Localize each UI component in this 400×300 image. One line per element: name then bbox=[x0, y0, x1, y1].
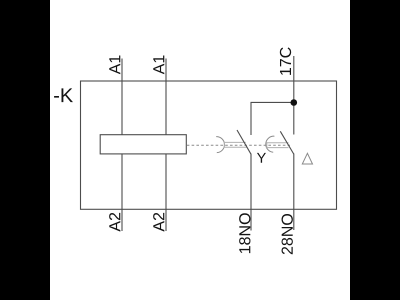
wire 18NO terminal (bottom of contact 1) bbox=[250, 154, 252, 231]
right letterbox bar bbox=[350, 0, 400, 300]
left letterbox bar bbox=[0, 0, 50, 300]
wire A2 terminal 2 (bottom) bbox=[165, 154, 167, 231]
fork coupling 2 (arc) bbox=[266, 136, 275, 152]
coil K (operating coil rectangle) bbox=[100, 135, 186, 154]
wire A1 terminal 1 (top) bbox=[121, 59, 123, 135]
wire 17C terminal (top right) bbox=[293, 56, 295, 135]
mechanical linkage dashed line from coil bbox=[187, 144, 290, 146]
linkage rail 1 (double line bracket) bbox=[224, 142, 247, 147]
terminal label 18NO bbox=[239, 213, 250, 253]
terminal label A1 (second) bbox=[153, 56, 164, 75]
fork coupling 1 (arc) bbox=[216, 137, 224, 153]
wire A1 terminal 2 (top) bbox=[165, 59, 167, 135]
wire A2 terminal 1 (bottom) bbox=[121, 154, 123, 231]
terminal label A2 (first) bbox=[109, 213, 120, 232]
junction node dot on 17C line bbox=[291, 99, 298, 106]
wire horizontal branch from 17C node to contact 1 bbox=[251, 102, 294, 135]
terminal label A2 (second) bbox=[153, 213, 164, 232]
terminal label 17C bbox=[280, 47, 291, 75]
wire 28NO terminal (bottom of contact 2) bbox=[293, 154, 295, 231]
NO contact 2 blade (28NO) bbox=[280, 131, 293, 154]
NO contact 1 blade (18NO) bbox=[237, 130, 251, 154]
relay outline box K bbox=[81, 81, 337, 209]
linkage rail 2 (double line bracket) bbox=[267, 143, 289, 148]
device label -K bbox=[54, 88, 73, 102]
contact group label Y bbox=[257, 153, 266, 163]
terminal label A1 (first) bbox=[109, 56, 120, 75]
delayed-switching triangle symbol bbox=[302, 153, 312, 164]
terminal label 28NO bbox=[282, 214, 293, 254]
